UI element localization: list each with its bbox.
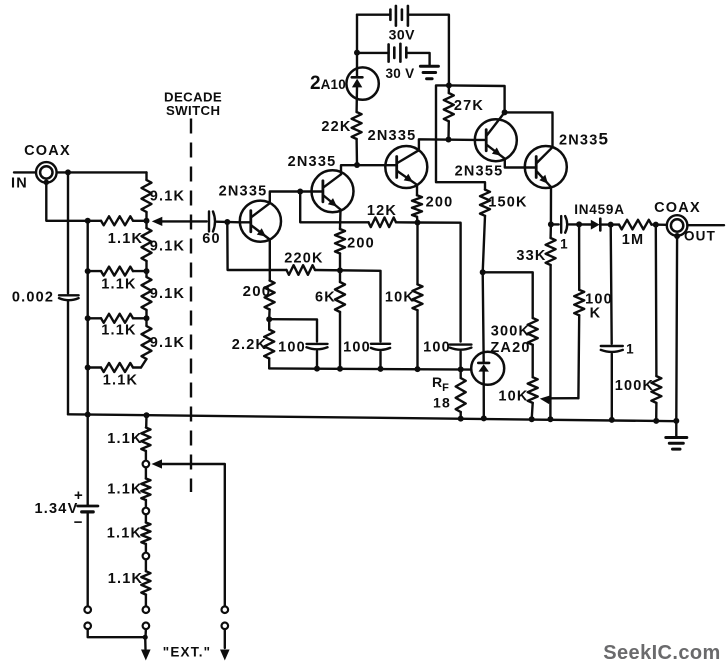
svg-text:1: 1 bbox=[560, 237, 569, 252]
wire coax shield down bbox=[46, 182, 87, 221]
node bus/decade chain bbox=[144, 412, 150, 418]
svg-text:2N335: 2N335 bbox=[288, 154, 337, 170]
wire chain contact to ext junction bbox=[144, 629, 147, 637]
resistor 27K bbox=[448, 85, 451, 93]
resistor 9.1K (2nd) bbox=[142, 228, 152, 261]
wire ground rail bbox=[269, 368, 471, 369]
resistor RF 18 bbox=[456, 378, 466, 412]
resistor 33K bbox=[549, 224, 552, 238]
svg-text:300K: 300K bbox=[491, 324, 530, 340]
resistor 2.2K bbox=[264, 330, 274, 359]
svg-text:IN: IN bbox=[11, 176, 28, 192]
svg-text:1.1K: 1.1K bbox=[101, 323, 136, 339]
resistor 10K (1st) bbox=[416, 223, 418, 285]
ground (supply) bbox=[420, 65, 438, 68]
wire bbox=[316, 351, 318, 368]
svg-text:9.1K: 9.1K bbox=[150, 335, 185, 351]
resistor 12K bbox=[369, 218, 397, 228]
wire mid tap to diode bbox=[356, 53, 358, 68]
wire 150K down bbox=[483, 216, 485, 272]
wire cap60 to Q1 base bbox=[217, 220, 240, 223]
resistor 10K pot bbox=[528, 377, 538, 403]
resistor 150K bbox=[480, 190, 490, 216]
wire bbox=[339, 254, 341, 271]
resistor 6K bbox=[339, 270, 341, 282]
node bus/battery bbox=[85, 412, 91, 418]
coax connector J1 (COAX IN) bbox=[36, 162, 57, 183]
wire bbox=[459, 352, 461, 370]
wire elbow 9.1K to 1.1K row4 bbox=[141, 359, 147, 368]
wire bbox=[145, 595, 147, 607]
resistor 1.1K row3 bbox=[88, 317, 101, 319]
wire bbox=[145, 559, 147, 571]
wire bbox=[145, 451, 147, 461]
wire bbox=[145, 261, 147, 277]
svg-text:10K: 10K bbox=[498, 389, 528, 405]
arrow pot wiper bbox=[540, 395, 551, 404]
wire ladder vertical bbox=[86, 221, 88, 415]
svg-text:1M: 1M bbox=[622, 232, 645, 248]
wire cap to diode bbox=[569, 223, 591, 226]
arrow to chain tap1 bbox=[152, 459, 163, 468]
resistor 1.1K chain-3 bbox=[141, 523, 150, 545]
node Q1 base junction bbox=[224, 219, 230, 225]
resistor 9.1K (1st) bbox=[142, 180, 152, 212]
wire Q1 collector up bbox=[270, 192, 312, 204]
node output row left bbox=[548, 221, 554, 227]
resistor 1.1K row1 bbox=[88, 220, 101, 222]
node ext junction bbox=[143, 635, 148, 640]
wire bbox=[145, 544, 147, 553]
node bus/cap bbox=[609, 417, 615, 423]
contact chain tap1 bbox=[143, 461, 150, 468]
wire feedback bus (bottom) bbox=[68, 414, 676, 421]
svg-text:SeekIC.com: SeekIC.com bbox=[603, 642, 720, 664]
svg-text:12K: 12K bbox=[367, 203, 397, 219]
wire battery30-1 left lead bbox=[357, 13, 390, 15]
diode 1N459A bbox=[591, 220, 600, 230]
resistor 1.1K row2 bbox=[88, 270, 101, 272]
node ladder row4 bbox=[85, 365, 91, 371]
svg-text:18: 18 bbox=[433, 395, 451, 411]
node bus/33K bbox=[547, 416, 553, 422]
wire interstage down bbox=[300, 192, 368, 223]
svg-text:10K: 10K bbox=[385, 290, 415, 306]
node coax-out shield bbox=[674, 233, 680, 239]
wire bbox=[145, 500, 147, 508]
svg-text:1.1K: 1.1K bbox=[103, 373, 138, 389]
resistor 1.1K chain-2 bbox=[141, 479, 150, 501]
svg-text:2.2K: 2.2K bbox=[232, 337, 267, 353]
resistor 22K bbox=[352, 112, 362, 139]
svg-text:OUT: OUT bbox=[684, 229, 716, 244]
node rail/RF bbox=[458, 366, 464, 372]
svg-text:30 V: 30 V bbox=[386, 66, 415, 81]
wire 12K to node bbox=[396, 221, 418, 224]
capacitor 1 (coupling) bbox=[551, 223, 559, 225]
node rail/cap2 bbox=[378, 366, 384, 372]
battery 30V (lower) bbox=[387, 44, 390, 61]
node 220K/emitter2 bbox=[337, 267, 343, 273]
node bus/pot bbox=[529, 416, 535, 422]
resistor 9.1K (4th) bbox=[142, 326, 152, 359]
resistor 1.1K chain-1 bbox=[141, 428, 150, 452]
wire decade switch dashed line bbox=[190, 119, 192, 493]
svg-text:"EXT.": "EXT." bbox=[163, 645, 212, 660]
contact chain bottom lower bbox=[143, 623, 150, 630]
resistor 300K bbox=[528, 318, 538, 345]
svg-text:100K: 100K bbox=[615, 378, 654, 394]
svg-text:1.34V: 1.34V bbox=[35, 501, 79, 517]
svg-text:100: 100 bbox=[343, 340, 371, 356]
arrow ext (right) bbox=[220, 650, 230, 661]
svg-text:30V: 30V bbox=[389, 26, 416, 42]
transistor Q5 2N335 bbox=[525, 146, 567, 188]
wire bbox=[379, 352, 381, 369]
node: coax-in shield tap bbox=[44, 180, 50, 186]
wire supply to 150K bbox=[436, 85, 485, 189]
svg-text:2A10: 2A10 bbox=[310, 73, 346, 94]
svg-text:6K: 6K bbox=[315, 290, 336, 306]
capacitor 60 bbox=[208, 212, 210, 232]
svg-text:200: 200 bbox=[347, 236, 375, 252]
wire battery contact to ext junction bbox=[88, 629, 146, 637]
resistor 200 (Q2) bbox=[335, 229, 345, 254]
wire supply left vertical bbox=[356, 15, 358, 53]
svg-text:1: 1 bbox=[626, 342, 635, 357]
svg-text:60: 60 bbox=[202, 231, 221, 247]
wire COAX IN left lead bbox=[14, 171, 36, 173]
node Q1-coll/Q2-base bbox=[297, 189, 303, 195]
wire Q3 collector up bbox=[419, 139, 475, 150]
node Q1 emitter chain bbox=[266, 316, 272, 322]
wire emitter row to cap3 bbox=[418, 223, 461, 342]
wire pot wiper bbox=[549, 397, 579, 399]
node supply mid tap bbox=[354, 50, 360, 56]
wire 22K to Q3 base node bbox=[355, 139, 358, 165]
svg-text:100: 100 bbox=[423, 340, 451, 356]
wire coax-in to divider top bbox=[57, 171, 147, 173]
node 150K/300K/ZA20 bbox=[480, 269, 486, 275]
contact battery lower bbox=[84, 623, 91, 630]
svg-text:1.1K: 1.1K bbox=[101, 277, 136, 293]
node rail/6K bbox=[337, 366, 343, 372]
contact ext lower bbox=[222, 623, 229, 630]
svg-text:1.1K: 1.1K bbox=[107, 526, 142, 542]
capacitor 100 (2nd) bbox=[371, 343, 390, 345]
node emitter row bbox=[415, 220, 421, 226]
wire bus to battery bbox=[86, 415, 88, 505]
resistor 1M bbox=[619, 220, 652, 230]
coax connector J2 (COAX OUT) bbox=[667, 215, 688, 236]
contact battery upper bbox=[84, 606, 91, 613]
svg-text:100: 100 bbox=[278, 340, 306, 356]
node rail/10K bbox=[415, 366, 421, 372]
node supply right bbox=[446, 82, 452, 88]
transistor Q3 2N335 bbox=[385, 146, 427, 188]
svg-text:1.1K: 1.1K bbox=[108, 571, 143, 587]
node rail/cap1 bbox=[314, 366, 320, 372]
wire bbox=[145, 310, 147, 326]
node bus end bbox=[673, 418, 679, 424]
capacitor 100 (3rd) bbox=[450, 343, 472, 345]
wire coax out right lead bbox=[687, 224, 724, 226]
wire Q4 emitter to Q5 base bbox=[505, 159, 525, 168]
resistor 1.1K chain-4 bbox=[141, 571, 150, 594]
wire battery to contact bbox=[86, 513, 88, 606]
node bus/ZA20 bbox=[481, 415, 487, 421]
svg-text:27K: 27K bbox=[454, 98, 484, 114]
contact chain tap3 bbox=[143, 553, 150, 560]
svg-text:150K: 150K bbox=[488, 195, 527, 211]
contact ext upper bbox=[222, 606, 229, 613]
wire 1M to coax bbox=[652, 223, 667, 226]
svg-text:0.002: 0.002 bbox=[12, 290, 54, 306]
svg-text:9.1K: 9.1K bbox=[150, 239, 185, 255]
wire 9.1K chain top stub bbox=[145, 172, 147, 180]
node collector tie bbox=[502, 109, 508, 115]
wire Q1 base to 220K bbox=[227, 222, 286, 270]
capacitor 0.002 bbox=[59, 294, 79, 296]
svg-text:33K: 33K bbox=[516, 248, 546, 264]
svg-text:2N335: 2N335 bbox=[559, 130, 609, 149]
svg-text:K: K bbox=[590, 306, 602, 322]
wire coax out shield down bbox=[675, 236, 678, 421]
node bbox=[144, 315, 150, 321]
wire bus to chain bbox=[145, 415, 148, 427]
wire diode to 1M bbox=[600, 223, 619, 225]
battery 30V (upper) bbox=[389, 10, 392, 20]
svg-text:220K: 220K bbox=[284, 251, 323, 267]
transistor Q4 2N355 bbox=[475, 119, 517, 161]
resistor 1.1K row4 bbox=[88, 366, 101, 368]
svg-text:9.1K: 9.1K bbox=[150, 286, 185, 302]
svg-text:2N355: 2N355 bbox=[455, 164, 504, 180]
capacitor 100 (1st) bbox=[307, 343, 328, 345]
node bbox=[144, 218, 150, 224]
node ladder row3 bbox=[85, 315, 91, 321]
diode 2A10 bbox=[346, 67, 378, 99]
contact chain bottom upper bbox=[143, 606, 150, 613]
resistor 220K bbox=[287, 265, 316, 275]
wire bbox=[224, 629, 226, 648]
resistor 200 (Q3) bbox=[412, 195, 422, 217]
wire bbox=[145, 514, 147, 522]
node 22K/Q3 base bbox=[354, 162, 360, 168]
wire bbox=[268, 310, 271, 320]
wire battery30-1 right lead bbox=[408, 15, 449, 86]
wire Q2 emitter down bbox=[339, 210, 342, 230]
svg-text:COAX: COAX bbox=[24, 143, 71, 159]
wire to ground bbox=[675, 421, 677, 437]
node ladder row1 bbox=[85, 218, 91, 224]
svg-text:SWITCH: SWITCH bbox=[166, 103, 220, 118]
wire input vertical upper (to 0.002 cap) bbox=[67, 172, 69, 293]
svg-text:200: 200 bbox=[243, 283, 272, 300]
svg-text:2N335: 2N335 bbox=[368, 128, 417, 144]
wire input vertical lower (cap to bus) bbox=[67, 302, 69, 415]
svg-text:IN459A: IN459A bbox=[574, 202, 625, 217]
node bbox=[144, 268, 150, 274]
svg-text:1.1K: 1.1K bbox=[107, 482, 142, 498]
diode ZA20 bbox=[471, 352, 504, 385]
wire Q5 emitter down bbox=[550, 187, 552, 224]
battery 1.34V bbox=[78, 505, 98, 508]
resistor 200 (Q1) bbox=[265, 281, 275, 310]
wire to Q5 collector bbox=[505, 112, 553, 147]
capacitor 1 (output) bbox=[611, 225, 612, 344]
arrow ext (center) bbox=[144, 637, 147, 649]
svg-text:COAX: COAX bbox=[654, 200, 701, 216]
svg-text:200: 200 bbox=[426, 195, 454, 211]
wire bbox=[532, 345, 534, 377]
node A (input top) bbox=[65, 169, 71, 175]
node bus/100K bbox=[653, 418, 659, 424]
svg-text:9.1K: 9.1K bbox=[150, 189, 185, 205]
resistor 100K (1st) bbox=[578, 224, 581, 289]
wire node to 300K bbox=[483, 272, 533, 318]
wire bbox=[145, 467, 147, 478]
wire battery30-2 right lead bbox=[406, 53, 429, 65]
node ladder row2 bbox=[85, 268, 91, 274]
contact chain tap2 bbox=[143, 508, 150, 515]
ground (output) bbox=[666, 436, 687, 439]
wire bbox=[416, 217, 419, 223]
wire Q2 collector up bbox=[341, 165, 385, 174]
transistor Q2 2N335 bbox=[312, 170, 354, 212]
arrow signal to divider bbox=[152, 217, 163, 226]
resistor 100K (2nd) bbox=[655, 225, 658, 377]
node bbox=[608, 222, 614, 228]
node bbox=[653, 222, 659, 228]
wire battery30-2 left lead bbox=[357, 52, 389, 54]
wire supply top to Q4/Q5 collectors bbox=[449, 85, 505, 112]
wire 220K to cap2 bbox=[315, 270, 381, 342]
svg-text:1.1K: 1.1K bbox=[107, 431, 142, 447]
node 27K/Q4 base bbox=[446, 137, 452, 143]
wire bbox=[145, 212, 147, 228]
resistor 9.1K (3rd) bbox=[142, 277, 152, 310]
wire to cap 100-1 bbox=[269, 319, 317, 341]
transistor Q1 2N335 bbox=[240, 201, 281, 242]
svg-text:2N335: 2N335 bbox=[219, 184, 268, 200]
svg-text:1.1K: 1.1K bbox=[108, 231, 143, 247]
node bus/RF bbox=[458, 416, 464, 422]
svg-text:22K: 22K bbox=[321, 119, 351, 135]
node bbox=[576, 221, 582, 227]
wire bbox=[532, 403, 533, 419]
wire Q1 emitter down bbox=[269, 240, 271, 281]
wire Q3 emitter down bbox=[416, 185, 418, 196]
